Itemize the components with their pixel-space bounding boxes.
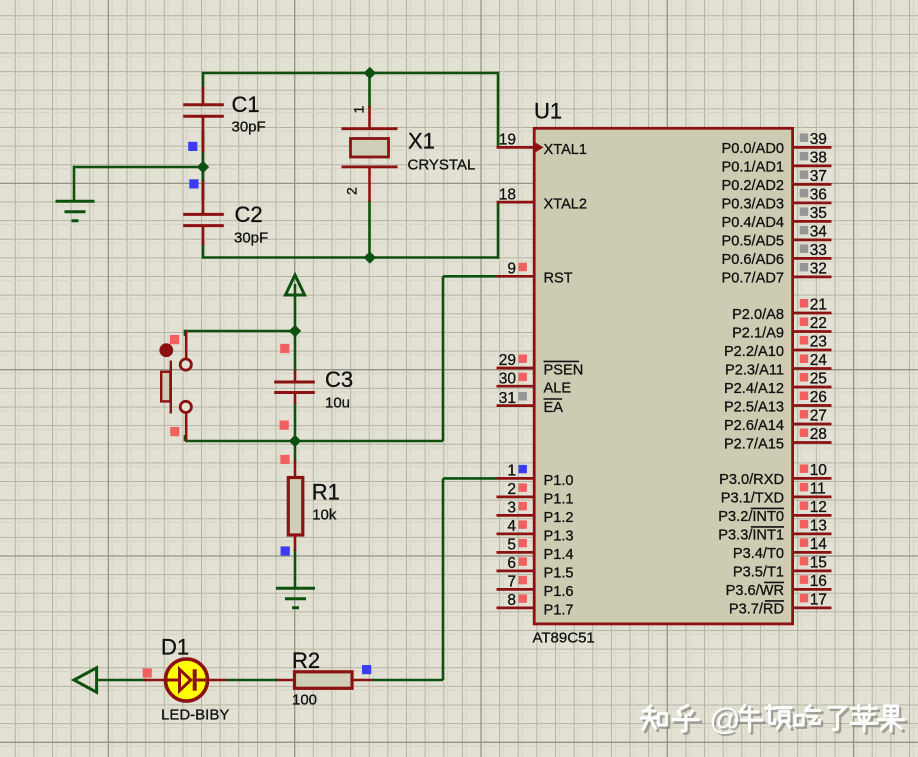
svg-text:35: 35	[810, 205, 827, 222]
svg-text:P0.1/AD1: P0.1/AD1	[722, 160, 784, 176]
svg-text:4: 4	[507, 518, 516, 535]
svg-text:@: @	[709, 701, 740, 736]
svg-text:33: 33	[810, 242, 827, 259]
svg-text:17: 17	[810, 592, 827, 609]
svg-text:6: 6	[507, 555, 516, 572]
svg-text:XTAL1: XTAL1	[544, 142, 588, 158]
svg-text:15: 15	[810, 555, 827, 572]
svg-text:22: 22	[810, 315, 827, 332]
svg-text:P1.3: P1.3	[544, 528, 574, 544]
svg-text:D1: D1	[161, 635, 189, 660]
svg-text:P1.7: P1.7	[544, 602, 574, 618]
svg-text:X1: X1	[408, 129, 435, 154]
svg-text:C2: C2	[235, 202, 263, 227]
svg-text:P0.2/AD2: P0.2/AD2	[722, 178, 784, 194]
svg-text:26: 26	[810, 389, 827, 406]
svg-text:14: 14	[810, 536, 828, 553]
svg-text:P2.1/A9: P2.1/A9	[732, 325, 784, 341]
svg-text:11: 11	[810, 481, 826, 498]
svg-text:U1: U1	[534, 99, 562, 124]
svg-text:P3.5/T1: P3.5/T1	[733, 565, 784, 581]
svg-text:1: 1	[351, 106, 367, 114]
svg-text:R1: R1	[312, 480, 340, 505]
svg-text:P1.1: P1.1	[544, 491, 574, 507]
svg-text:32: 32	[810, 261, 827, 278]
svg-text:38: 38	[810, 150, 827, 167]
svg-text:25: 25	[810, 371, 827, 388]
svg-text:P2.2/A10: P2.2/A10	[724, 344, 784, 360]
svg-text:P1.6: P1.6	[544, 584, 574, 600]
svg-text:P0.5/AD5: P0.5/AD5	[722, 234, 784, 250]
svg-text:13: 13	[810, 518, 827, 535]
svg-text:36: 36	[810, 187, 827, 204]
svg-text:5: 5	[507, 537, 516, 554]
svg-text:P3.2/INT0: P3.2/INT0	[718, 509, 784, 525]
svg-text:P3.1/TXD: P3.1/TXD	[721, 491, 784, 507]
svg-text:P2.6/A14: P2.6/A14	[724, 418, 784, 434]
svg-text:P0.6/AD6: P0.6/AD6	[722, 252, 784, 268]
svg-text:P1.2: P1.2	[544, 510, 574, 526]
svg-text:27: 27	[810, 408, 827, 425]
svg-text:P1.0: P1.0	[544, 473, 574, 489]
svg-text:ALE: ALE	[544, 381, 572, 397]
svg-text:10k: 10k	[312, 506, 337, 523]
svg-text:C3: C3	[325, 367, 353, 392]
svg-text:RST: RST	[544, 271, 573, 287]
svg-text:10u: 10u	[325, 395, 350, 412]
svg-text:34: 34	[810, 224, 828, 241]
svg-text:23: 23	[810, 334, 827, 351]
svg-text:P0.7/AD7: P0.7/AD7	[722, 271, 784, 287]
svg-text:C1: C1	[232, 92, 260, 117]
svg-text:LED-BIBY: LED-BIBY	[161, 707, 229, 724]
svg-text:PSEN: PSEN	[544, 362, 584, 378]
svg-text:30pF: 30pF	[232, 119, 266, 136]
svg-text:100: 100	[292, 692, 317, 709]
svg-text:P3.6/WR: P3.6/WR	[726, 583, 784, 599]
svg-text:2: 2	[344, 187, 360, 195]
svg-text:P1.4: P1.4	[544, 547, 574, 563]
svg-text:10: 10	[810, 462, 828, 479]
svg-text:7: 7	[507, 574, 516, 591]
svg-text:P0.0/AD0: P0.0/AD0	[722, 141, 784, 157]
svg-text:P3.7/RD: P3.7/RD	[729, 602, 784, 618]
svg-text:P2.3/A11: P2.3/A11	[725, 362, 784, 378]
svg-text:21: 21	[810, 297, 827, 314]
svg-text:P2.7/A15: P2.7/A15	[724, 436, 784, 452]
svg-text:16: 16	[810, 573, 827, 590]
svg-text:P2.5/A13: P2.5/A13	[724, 399, 784, 415]
svg-text:AT89C51: AT89C51	[533, 630, 595, 647]
svg-text:P0.3/AD3: P0.3/AD3	[722, 197, 784, 213]
svg-text:XTAL2: XTAL2	[544, 197, 588, 213]
svg-text:CRYSTAL: CRYSTAL	[408, 156, 476, 173]
svg-text:P3.0/RXD: P3.0/RXD	[719, 472, 784, 488]
svg-text:39: 39	[810, 131, 827, 148]
svg-text:3: 3	[507, 500, 516, 517]
svg-text:EA: EA	[544, 400, 564, 416]
svg-text:30pF: 30pF	[234, 230, 268, 247]
svg-text:8: 8	[507, 592, 516, 609]
svg-text:P3.3/INT1: P3.3/INT1	[718, 528, 784, 544]
svg-text:P0.4/AD4: P0.4/AD4	[722, 215, 784, 231]
svg-text:R2: R2	[292, 648, 320, 673]
svg-text:12: 12	[810, 499, 827, 516]
svg-text:28: 28	[810, 426, 827, 443]
svg-text:P1.5: P1.5	[544, 565, 574, 581]
svg-text:P2.4/A12: P2.4/A12	[724, 381, 784, 397]
svg-text:37: 37	[810, 168, 827, 185]
svg-text:24: 24	[810, 352, 828, 369]
svg-text:P3.4/T0: P3.4/T0	[733, 546, 784, 562]
svg-text:P2.0/A8: P2.0/A8	[732, 307, 784, 323]
